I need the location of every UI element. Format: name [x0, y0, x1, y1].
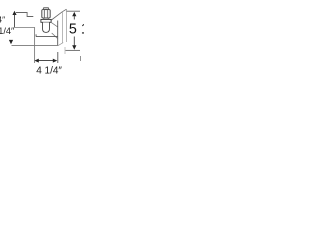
handle knob [42, 10, 50, 19]
escutcheon front top edge [36, 34, 58, 36]
bottom dimension left arrowhead [34, 59, 38, 63]
wall slab lower corner tick [64, 47, 66, 54]
dimension 3/4" up arrow [12, 11, 16, 15]
leader line from arrow stem to plate (upper) [15, 28, 35, 64]
leader line lower (to plate bottom) [12, 44, 58, 46]
right dimension top extension line [67, 10, 81, 12]
svg-text:4 1/4″: 4 1/4″ [36, 66, 62, 77]
bottom dimension arrow line [36, 60, 57, 62]
svg-text:1/4″: 1/4″ [0, 26, 15, 36]
right dimension upper stem [73, 16, 75, 20]
wall slab bottom edge [58, 43, 64, 46]
svg-text:4″: 4″ [0, 15, 5, 25]
handle neck [44, 18, 48, 19]
valve stem housing (U shape) [43, 22, 50, 32]
bottom dimension right extension line [57, 52, 59, 63]
flange receding edge [51, 22, 57, 26]
bottom dimension right arrowhead [53, 59, 57, 63]
dimension 3/4" upper extension line (stepped) [16, 13, 33, 17]
wall slab top edge [62, 9, 66, 12]
right dimension up arrow [72, 12, 76, 16]
right dimension lower stem [73, 37, 75, 46]
cropped extension tick bottom right [80, 56, 82, 61]
wall slab front edge [61, 12, 63, 43]
dimension 1/4" down arrow [9, 40, 13, 44]
escutcheon top receding edge [51, 12, 62, 20]
dimension 3/4" arrow stem [14, 15, 16, 28]
bonnet flange [41, 19, 51, 22]
wall slab back edge [66, 9, 68, 42]
right dimension bottom extension line [66, 49, 81, 51]
svg-text:5 1: 5 1 [69, 22, 84, 38]
right dimension down arrow [72, 45, 76, 49]
handle knob top cap [43, 8, 48, 10]
escutcheon right edge [57, 21, 59, 46]
escutcheon side bottom edge [52, 33, 58, 39]
